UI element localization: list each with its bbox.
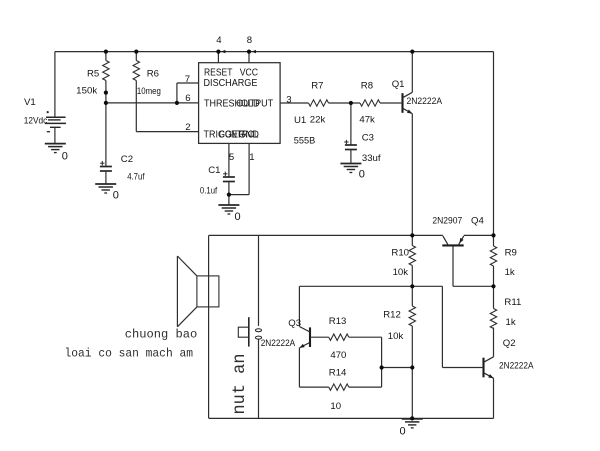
svg-text:2N2222A: 2N2222A — [407, 96, 443, 107]
svg-text:nut an: nut an — [230, 354, 250, 415]
svg-text:0: 0 — [113, 190, 119, 202]
svg-text:4.7uf: 4.7uf — [127, 172, 145, 183]
svg-text:4: 4 — [216, 35, 222, 46]
svg-text:7: 7 — [185, 74, 190, 85]
svg-text:5: 5 — [229, 152, 234, 163]
svg-text:R11: R11 — [504, 297, 521, 308]
svg-text:Q1: Q1 — [392, 79, 405, 90]
svg-text:DISCHARGE: DISCHARGE — [204, 78, 258, 89]
svg-text:GND: GND — [239, 130, 259, 141]
svg-text:10: 10 — [330, 401, 341, 412]
svg-text:33uf: 33uf — [362, 153, 381, 164]
svg-text:0.1uf: 0.1uf — [200, 186, 218, 197]
svg-text:555B: 555B — [294, 136, 316, 147]
svg-text:R7: R7 — [311, 81, 323, 92]
svg-text:10k: 10k — [388, 331, 404, 342]
svg-text:Q4: Q4 — [471, 216, 484, 227]
svg-text:VCC: VCC — [240, 67, 258, 78]
svg-text:C1: C1 — [208, 165, 220, 176]
svg-text:22k: 22k — [310, 115, 326, 126]
svg-text:150k: 150k — [76, 86, 97, 97]
svg-text:U1: U1 — [294, 115, 306, 126]
svg-text:C3: C3 — [362, 133, 374, 144]
svg-text:chuong bao: chuong bao — [125, 329, 198, 342]
svg-text:10k: 10k — [393, 267, 409, 278]
svg-text:R6: R6 — [147, 69, 159, 80]
svg-text:V1: V1 — [24, 97, 36, 108]
svg-text:Q2: Q2 — [503, 338, 516, 349]
svg-text:R9: R9 — [505, 248, 517, 259]
svg-text:R10: R10 — [391, 248, 409, 259]
svg-text:0: 0 — [235, 211, 241, 223]
svg-text:1: 1 — [249, 152, 254, 163]
svg-text:2N2222A: 2N2222A — [261, 338, 296, 349]
svg-text:10meg: 10meg — [137, 86, 161, 97]
svg-text:2N2222A: 2N2222A — [499, 361, 534, 372]
svg-text:47k: 47k — [359, 115, 375, 126]
svg-text:3: 3 — [286, 95, 291, 106]
svg-text:2: 2 — [185, 122, 190, 133]
svg-text:1k: 1k — [505, 267, 515, 278]
svg-text:R14: R14 — [329, 368, 347, 379]
svg-text:1k: 1k — [506, 317, 516, 328]
svg-text:R12: R12 — [383, 310, 401, 321]
svg-text:loai co san mach am: loai co san mach am — [65, 348, 194, 361]
svg-text:RESET: RESET — [204, 67, 232, 78]
svg-text:R5: R5 — [87, 69, 99, 80]
svg-text:R8: R8 — [361, 81, 373, 92]
svg-text:8: 8 — [247, 35, 252, 46]
svg-text:C2: C2 — [121, 154, 133, 165]
svg-text:R13: R13 — [329, 316, 347, 327]
svg-text:OUTPUT: OUTPUT — [236, 99, 273, 110]
svg-text:0: 0 — [62, 151, 68, 163]
svg-text:0: 0 — [359, 169, 365, 181]
svg-text:0: 0 — [400, 426, 406, 438]
svg-text:6: 6 — [185, 93, 190, 104]
svg-text:470: 470 — [330, 350, 346, 361]
svg-text:Q3: Q3 — [288, 318, 301, 329]
svg-text:12Vdc: 12Vdc — [24, 116, 48, 127]
svg-text:2N2907: 2N2907 — [432, 216, 462, 227]
